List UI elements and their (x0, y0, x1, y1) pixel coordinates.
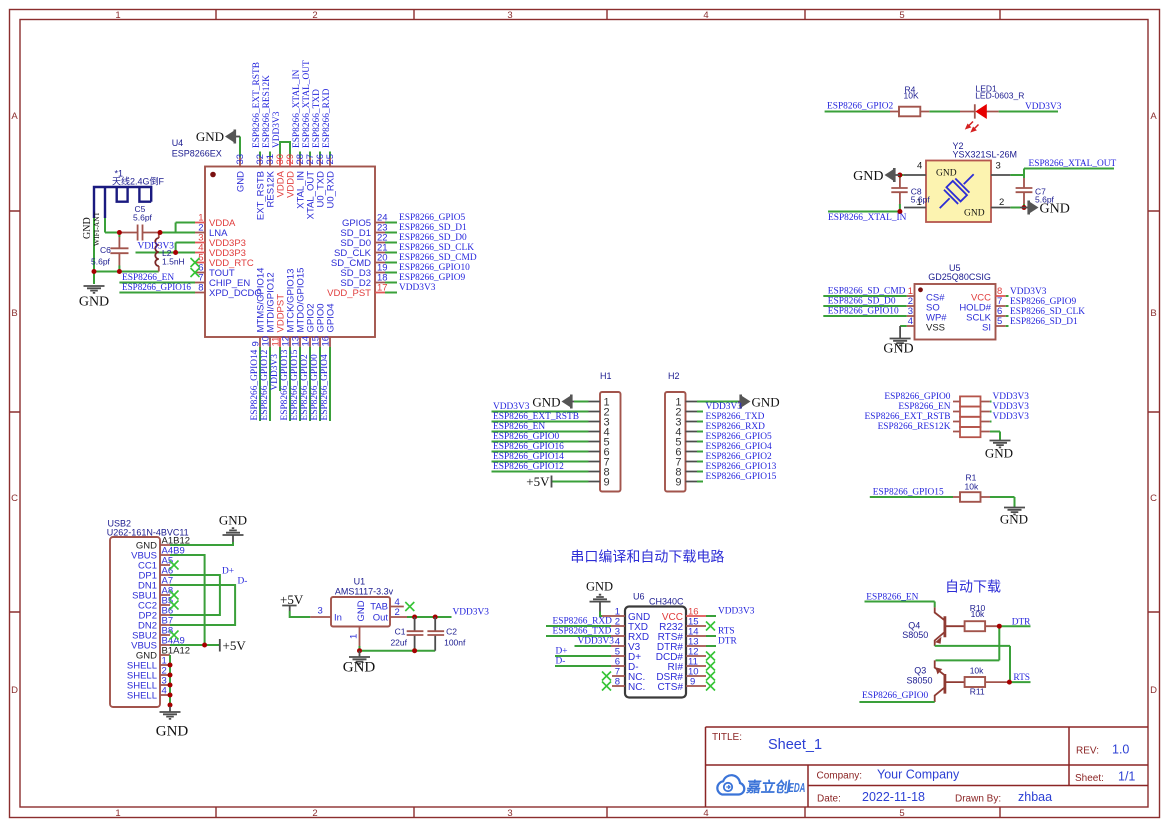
svg-text:D-: D- (238, 577, 248, 587)
svg-text:25: 25 (325, 154, 336, 165)
svg-text:1: 1 (349, 634, 360, 639)
svg-text:9: 9 (690, 677, 695, 688)
svg-text:ESP8266_GPIO14: ESP8266_GPIO14 (493, 452, 564, 462)
svg-text:2: 2 (395, 607, 400, 618)
svg-text:ESP8266_SD_CLK: ESP8266_SD_CLK (399, 243, 474, 253)
svg-text:U0_RXD: U0_RXD (326, 171, 337, 209)
svg-text:1.5nH: 1.5nH (162, 257, 185, 267)
svg-text:22uf: 22uf (390, 637, 407, 647)
svg-text:ESP8266_GPIO10: ESP8266_GPIO10 (828, 307, 899, 317)
svg-text:VDD3V3: VDD3V3 (718, 607, 755, 617)
svg-text:VDD3V3: VDD3V3 (453, 608, 490, 618)
svg-text:自动下载: 自动下载 (945, 579, 1001, 595)
svg-text:R11: R11 (970, 686, 985, 696)
svg-text:GND: GND (136, 651, 157, 662)
svg-text:ESP8266_XTAL_IN: ESP8266_XTAL_IN (828, 213, 907, 223)
svg-text:1: 1 (115, 10, 120, 21)
svg-text:GND: GND (883, 342, 913, 357)
svg-text:VSS: VSS (926, 323, 945, 334)
svg-text:CTS#: CTS# (657, 682, 683, 693)
svg-text:ESP8266_GPIO13: ESP8266_GPIO13 (280, 349, 290, 420)
svg-text:ESP8266_SD_D1: ESP8266_SD_D1 (1010, 317, 1078, 327)
svg-text:B: B (11, 308, 17, 319)
svg-text:GND: GND (586, 580, 613, 594)
svg-text:VDD3V3: VDD3V3 (138, 242, 175, 252)
svg-text:ESP8266_TXD: ESP8266_TXD (706, 412, 765, 422)
svg-text:1: 1 (908, 286, 913, 297)
svg-text:A: A (11, 111, 18, 122)
svg-text:3: 3 (996, 161, 1001, 172)
svg-text:3: 3 (507, 10, 512, 21)
svg-text:ESP8266_GPIO5: ESP8266_GPIO5 (706, 432, 772, 442)
svg-text:RTS: RTS (718, 627, 735, 637)
svg-text:天线2.4G倒F: 天线2.4G倒F (112, 176, 165, 187)
svg-text:ESP8266_RES12K: ESP8266_RES12K (262, 75, 272, 148)
svg-text:S8050: S8050 (902, 630, 928, 640)
svg-text:100nf: 100nf (444, 637, 466, 647)
svg-text:ESP8266_EXT_RSTB: ESP8266_EXT_RSTB (493, 412, 579, 422)
svg-text:2022-11-18: 2022-11-18 (862, 790, 925, 804)
svg-text:ESP8266_RXD: ESP8266_RXD (553, 617, 613, 627)
svg-text:C: C (1150, 493, 1157, 504)
svg-text:TAB: TAB (370, 601, 388, 612)
svg-text:4: 4 (908, 316, 913, 327)
svg-text:GND: GND (343, 660, 376, 676)
svg-text:3: 3 (507, 808, 512, 819)
svg-text:ESP8266_RES12K: ESP8266_RES12K (878, 422, 951, 432)
svg-text:GND: GND (196, 129, 224, 144)
svg-text:zhbaa: zhbaa (1018, 790, 1052, 804)
svg-text:Q4: Q4 (908, 621, 920, 631)
svg-text:4: 4 (703, 808, 708, 819)
svg-text:Sheet_1: Sheet_1 (768, 737, 822, 753)
svg-text:GND: GND (1000, 512, 1028, 527)
svg-text:33: 33 (235, 154, 246, 165)
svg-text:4: 4 (703, 10, 708, 21)
svg-text:ESP8266_GPIO13: ESP8266_GPIO13 (706, 462, 777, 472)
svg-text:5.6pf: 5.6pf (911, 194, 931, 204)
svg-text:ESP8266_GPIO2: ESP8266_GPIO2 (827, 102, 893, 112)
svg-text:ESP8266_GPIO15: ESP8266_GPIO15 (290, 349, 300, 420)
svg-text:ESP8266EX: ESP8266EX (172, 149, 222, 159)
svg-text:ESP8266_TXD: ESP8266_TXD (553, 627, 612, 637)
svg-text:GND: GND (985, 446, 1013, 461)
svg-text:VDD3V3: VDD3V3 (993, 392, 1030, 402)
svg-text:GND: GND (356, 600, 367, 621)
svg-text:5.6pf: 5.6pf (1035, 194, 1055, 204)
svg-text:3: 3 (318, 606, 323, 617)
svg-text:Sheet:: Sheet: (1075, 773, 1104, 784)
svg-text:B: B (1150, 308, 1156, 319)
svg-text:U4: U4 (172, 138, 184, 148)
svg-text:REV:: REV: (1076, 746, 1099, 757)
svg-text:+5V: +5V (526, 474, 550, 489)
svg-text:GND: GND (236, 171, 247, 192)
svg-text:1.0: 1.0 (1112, 743, 1129, 757)
svg-text:GND: GND (532, 395, 560, 410)
svg-text:5.6pf: 5.6pf (133, 213, 153, 223)
svg-text:EDA: EDA (788, 780, 807, 795)
svg-text:D+: D+ (556, 647, 568, 657)
svg-text:ESP8266_SD_CMD: ESP8266_SD_CMD (828, 287, 906, 297)
svg-text:Your Company: Your Company (877, 768, 960, 782)
svg-text:C1: C1 (395, 627, 406, 637)
svg-text:DTR: DTR (718, 637, 737, 647)
svg-text:VDD3V3: VDD3V3 (706, 402, 743, 412)
svg-text:GND: GND (136, 541, 157, 552)
svg-text:ESP8266_GPIO4: ESP8266_GPIO4 (706, 442, 772, 452)
svg-text:ESP8266_SD_D1: ESP8266_SD_D1 (399, 223, 467, 233)
svg-text:VDD_PST: VDD_PST (327, 288, 371, 299)
svg-text:VDD3V3: VDD3V3 (993, 412, 1030, 422)
svg-text:Company:: Company: (817, 771, 863, 782)
svg-text:SHELL: SHELL (127, 691, 157, 702)
svg-text:29: 29 (285, 154, 296, 165)
svg-text:VDD3V3: VDD3V3 (1010, 287, 1047, 297)
svg-text:In: In (334, 612, 342, 623)
svg-text:串口编译和自动下载电路: 串口编译和自动下载电路 (570, 549, 724, 565)
svg-text:U1: U1 (354, 576, 366, 586)
svg-text:GND: GND (79, 295, 109, 310)
svg-text:4: 4 (162, 686, 167, 697)
svg-text:VDD3V3: VDD3V3 (993, 402, 1030, 412)
svg-text:GND: GND (752, 395, 780, 410)
svg-text:ESP8266_GPIO4: ESP8266_GPIO4 (320, 354, 330, 420)
svg-text:H2: H2 (668, 371, 680, 381)
svg-text:VDD3V3: VDD3V3 (399, 283, 436, 293)
svg-text:ESP8266_GPIO10: ESP8266_GPIO10 (399, 263, 470, 273)
svg-text:NC.: NC. (628, 682, 645, 693)
svg-text:1/1: 1/1 (1118, 770, 1135, 784)
svg-text:C: C (11, 493, 18, 504)
svg-text:ESP8266_GPIO5: ESP8266_GPIO5 (399, 213, 465, 223)
svg-text:ESP8266_SD_D0: ESP8266_SD_D0 (828, 297, 896, 307)
svg-text:Date:: Date: (817, 794, 841, 805)
svg-text:ESP8266_RXD: ESP8266_RXD (706, 422, 766, 432)
svg-text:SI: SI (982, 323, 991, 334)
svg-text:ESP8266_GPIO12: ESP8266_GPIO12 (493, 462, 564, 472)
svg-text:5: 5 (899, 808, 904, 819)
svg-text:CH340C: CH340C (649, 597, 684, 607)
svg-text:ESP8266_SD_D0: ESP8266_SD_D0 (399, 233, 467, 243)
svg-text:VDD3V3: VDD3V3 (1025, 102, 1062, 112)
svg-text:ESP8266_EN: ESP8266_EN (493, 422, 545, 432)
svg-text:5.6pf: 5.6pf (91, 257, 111, 267)
svg-text:9: 9 (675, 476, 681, 488)
svg-text:ESP8266_GPIO14: ESP8266_GPIO14 (250, 349, 260, 420)
svg-text:ESP8266_GPIO16: ESP8266_GPIO16 (493, 442, 564, 452)
svg-text:2: 2 (312, 10, 317, 21)
svg-text:GND: GND (853, 169, 883, 184)
svg-text:ESP8266_GPIO15: ESP8266_GPIO15 (706, 472, 777, 482)
svg-text:ESP8266_GPIO0: ESP8266_GPIO0 (310, 354, 320, 420)
svg-text:ESP8266_SD_CMD: ESP8266_SD_CMD (399, 253, 477, 263)
svg-text:9: 9 (604, 476, 610, 488)
svg-text:10k: 10k (971, 609, 985, 619)
svg-text:ESP8266_XTAL_OUT: ESP8266_XTAL_OUT (1029, 159, 1117, 169)
svg-text:DTR: DTR (1012, 617, 1031, 627)
svg-text:S8050: S8050 (907, 675, 933, 685)
svg-text:ESP8266_RXD: ESP8266_RXD (322, 88, 332, 148)
svg-text:GND: GND (964, 209, 985, 219)
svg-text:ESP8266_GPIO0: ESP8266_GPIO0 (862, 691, 928, 701)
svg-text:5: 5 (997, 316, 1002, 327)
svg-text:A: A (1150, 111, 1157, 122)
svg-text:11: 11 (271, 337, 282, 347)
svg-text:D+: D+ (222, 567, 234, 577)
svg-text:H1: H1 (600, 371, 612, 381)
svg-text:2: 2 (999, 197, 1004, 208)
svg-text:VDD3V3: VDD3V3 (270, 354, 280, 391)
svg-text:ESP8266_XTAL_OUT: ESP8266_XTAL_OUT (302, 60, 312, 148)
svg-text:ESP8266_GPIO9: ESP8266_GPIO9 (1010, 297, 1076, 307)
svg-text:ESP8266_SD_CLK: ESP8266_SD_CLK (1010, 307, 1085, 317)
svg-text:ESP8266_GPIO16: ESP8266_GPIO16 (122, 283, 191, 293)
svg-text:ESP8266_EXT_RSTB: ESP8266_EXT_RSTB (252, 62, 262, 148)
svg-text:4: 4 (395, 597, 400, 608)
svg-text:GND: GND (219, 513, 247, 528)
svg-text:ESP8266_EXT_RSTB: ESP8266_EXT_RSTB (865, 412, 951, 422)
svg-text:C2: C2 (446, 627, 457, 637)
svg-text:GPIO4: GPIO4 (326, 303, 337, 332)
svg-text:4: 4 (917, 161, 922, 172)
svg-text:AMS1117-3.3v: AMS1117-3.3v (335, 587, 394, 597)
svg-text:ESP8266_TXD: ESP8266_TXD (312, 89, 322, 148)
svg-text:+5V: +5V (223, 638, 247, 653)
svg-text:VDD3V3: VDD3V3 (578, 637, 615, 647)
svg-text:16: 16 (321, 336, 332, 347)
svg-text:5: 5 (899, 10, 904, 21)
svg-text:ESP8266_EN: ESP8266_EN (898, 402, 950, 412)
svg-text:GD25Q80CSIG: GD25Q80CSIG (928, 272, 991, 282)
svg-text:10k: 10k (970, 666, 984, 676)
svg-text:RTS: RTS (1013, 673, 1030, 683)
svg-text:17: 17 (377, 283, 388, 294)
svg-text:嘉立创: 嘉立创 (744, 778, 791, 796)
svg-text:XPD_DCDC: XPD_DCDC (209, 288, 261, 299)
svg-text:ESP8266_XTAL_IN: ESP8266_XTAL_IN (292, 69, 302, 148)
svg-text:C6: C6 (100, 245, 111, 255)
svg-text:8: 8 (615, 677, 620, 688)
svg-text:2: 2 (312, 808, 317, 819)
svg-text:TITLE:: TITLE: (712, 732, 742, 743)
svg-text:GND: GND (156, 724, 189, 740)
svg-text:ESP8266_GPIO0: ESP8266_GPIO0 (884, 392, 950, 402)
svg-text:Q3: Q3 (914, 666, 926, 676)
svg-text:8: 8 (198, 283, 203, 294)
svg-text:ESP8266_GPIO2: ESP8266_GPIO2 (706, 452, 772, 462)
svg-text:VDD3V3: VDD3V3 (493, 402, 530, 412)
svg-text:VDDD: VDDD (286, 171, 297, 198)
svg-text:GND: GND (936, 169, 957, 179)
svg-text:10k: 10k (965, 482, 979, 492)
svg-text:LED-0603_R: LED-0603_R (975, 90, 1024, 100)
svg-text:YSX321SL-26M: YSX321SL-26M (953, 150, 1018, 160)
svg-text:WIFI-ANT: WIFI-ANT (92, 211, 101, 246)
svg-text:ESP8266_GPIO2: ESP8266_GPIO2 (300, 354, 310, 420)
svg-text:U6: U6 (633, 592, 645, 602)
svg-text:D-: D- (556, 657, 566, 667)
svg-text:ESP8266_GPIO12: ESP8266_GPIO12 (260, 349, 270, 420)
svg-text:2: 2 (198, 223, 203, 234)
svg-text:10K: 10K (904, 90, 919, 100)
svg-text:D: D (11, 685, 18, 696)
svg-text:Out: Out (373, 612, 389, 623)
svg-text:1: 1 (115, 808, 120, 819)
svg-text:D: D (1150, 685, 1157, 696)
svg-text:ESP8266_GPIO9: ESP8266_GPIO9 (399, 273, 465, 283)
svg-text:VDDPST: VDDPST (276, 294, 287, 333)
svg-text:Drawn By:: Drawn By: (955, 794, 1001, 805)
svg-text:ESP8266_GPIO0: ESP8266_GPIO0 (493, 432, 559, 442)
svg-text:VDD3V3: VDD3V3 (272, 111, 282, 148)
